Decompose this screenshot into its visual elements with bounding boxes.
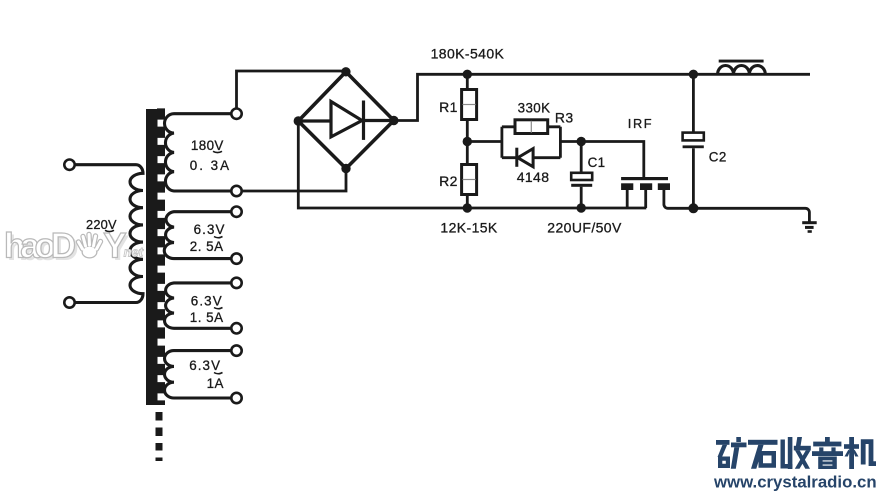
svg-text:4148: 4148 [517,169,550,185]
svg-text:www.crystalradio.cn: www.crystalradio.cn [713,473,877,492]
svg-text:net: net [124,245,144,260]
svg-text:haoD: haoD [4,226,76,265]
svg-text:6.3V: 6.3V [191,293,223,308]
svg-text:6.3V: 6.3V [189,358,221,373]
svg-text:R3: R3 [555,110,574,126]
svg-text:1. 5A: 1. 5A [190,310,224,325]
svg-text:IRF: IRF [628,116,653,131]
svg-text:12K-15K: 12K-15K [440,220,498,236]
svg-text:180V: 180V [191,138,224,153]
svg-text:C2: C2 [709,150,727,165]
svg-text:220UF/50V: 220UF/50V [547,220,622,236]
svg-text:C1: C1 [588,155,606,170]
svg-text:R2: R2 [439,173,458,189]
svg-text:6.3V: 6.3V [194,222,226,237]
svg-text:330K: 330K [518,101,551,116]
svg-text:0. 3A: 0. 3A [190,158,231,173]
svg-text:R1: R1 [439,99,458,115]
svg-text:2. 5A: 2. 5A [190,239,224,254]
svg-text:1A: 1A [207,376,224,391]
svg-text:180K-540K: 180K-540K [431,46,505,62]
